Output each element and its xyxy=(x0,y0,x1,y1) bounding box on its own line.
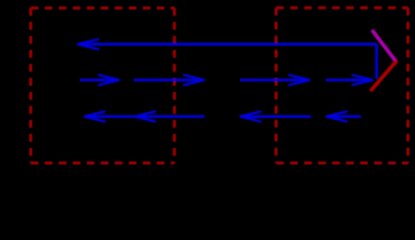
return beam arrow (long top line, head pointing left) xyxy=(78,39,377,49)
backward beam arrow G (bottom row, pointing left) xyxy=(240,111,311,121)
backward beam arrow E (bottom row, pointing left) xyxy=(84,111,134,121)
mirror apex joint xyxy=(393,58,396,66)
mirror lower arm (dark red) xyxy=(371,62,396,91)
backward beam arrow H (bottom row, pointing left) xyxy=(326,111,361,121)
right dashed region box xyxy=(276,8,408,163)
forward beam arrow C (middle row, pointing right) xyxy=(240,75,310,85)
backward beam arrow F (bottom row, pointing left) xyxy=(135,111,205,121)
mirror upper arm (magenta) xyxy=(372,30,396,61)
forward beam arrow D (middle row, pointing right into riser) xyxy=(326,75,373,85)
wire: vertical riser joining top return line to middle beam at right xyxy=(375,44,378,78)
forward beam arrow A (middle row, pointing right) xyxy=(80,75,120,85)
forward beam arrow B (middle row, pointing right) xyxy=(134,75,205,85)
left dashed region box xyxy=(31,8,175,163)
